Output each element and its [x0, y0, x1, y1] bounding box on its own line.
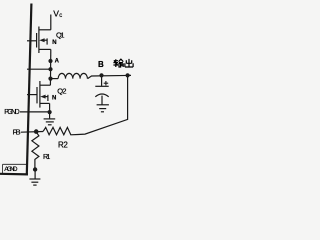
svg-text:N: N: [52, 96, 56, 102]
svg-text:R2: R2: [58, 141, 68, 150]
svg-text:PGND: PGND: [4, 109, 20, 116]
svg-text:A: A: [55, 59, 60, 65]
svg-text:Q2: Q2: [57, 86, 66, 95]
svg-text:R1: R1: [43, 152, 50, 161]
svg-text:c: c: [59, 13, 62, 19]
svg-text:Q1: Q1: [56, 30, 65, 39]
svg-text:FB: FB: [13, 128, 21, 137]
svg-text:V: V: [53, 9, 59, 19]
svg-text:N: N: [52, 40, 56, 46]
svg-text:B: B: [98, 60, 104, 69]
svg-text:AGND: AGND: [4, 166, 17, 173]
